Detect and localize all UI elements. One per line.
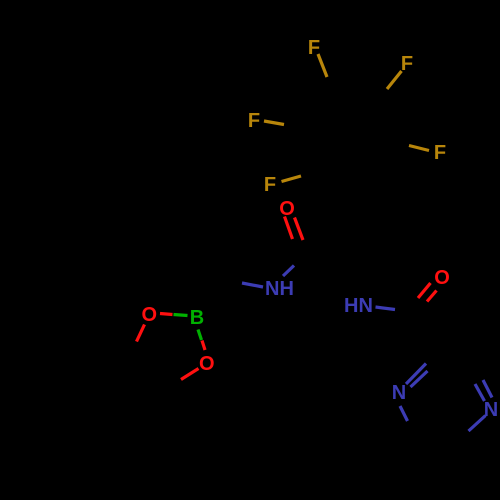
svg-text:O: O [279, 198, 295, 220]
svg-text:F: F [248, 110, 260, 132]
svg-text:N: N [484, 399, 498, 421]
bond C2-F2 gold half [387, 71, 402, 89]
amide A carbonyl double bond O=C red halves [285, 217, 293, 240]
bond O2-C red half [181, 369, 199, 380]
pyrazine N1-C6 blue half [400, 406, 408, 421]
pyrazine N1=C2 double bond outer blue line [406, 364, 426, 385]
svg-text:B: B [190, 307, 204, 329]
bond O1-C red half [137, 325, 145, 342]
svg-text:O: O [142, 304, 158, 326]
pyrazine N4-C5 blue half [469, 416, 486, 432]
svg-text:O: O [434, 267, 450, 289]
amide B carbonyl double bond C=O red halves [418, 283, 431, 298]
svg-text:F: F [308, 37, 320, 59]
bond B-O2 green half [198, 330, 202, 341]
bond C1-F1 gold half [318, 54, 327, 77]
amide B HN-C(=O) blue half [376, 307, 396, 310]
svg-text:F: F [434, 142, 446, 164]
bond C4-F4 gold half [409, 146, 429, 151]
svg-text:HN: HN [344, 295, 373, 317]
bond B-O1 red half [160, 314, 173, 315]
bond C3-F3 gold half [264, 121, 284, 125]
bond C5-F5 gold half [282, 176, 302, 182]
amide A N-CH blue half [242, 283, 263, 287]
svg-text:F: F [401, 53, 413, 75]
svg-text:F: F [264, 174, 276, 196]
svg-text:N: N [392, 382, 406, 404]
pyrazine N4=C3 double bond outer blue line [483, 380, 492, 398]
bond B-O1 green half [174, 315, 188, 316]
svg-text:NH: NH [265, 278, 294, 300]
pyrazine N1=C2 double bond inner blue line [411, 371, 428, 387]
pyrazine N4=C3 double bond inner blue line [475, 384, 485, 401]
svg-text:O: O [199, 353, 215, 375]
bond B-O2 red half [202, 341, 205, 351]
amide A N-C(=O) blue half [283, 266, 294, 277]
